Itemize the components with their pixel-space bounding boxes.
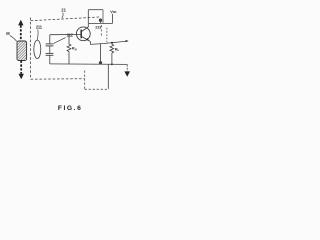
VDD lead [112, 14, 114, 24]
svg-text:M: M [6, 31, 10, 36]
junction dot RL bottom [111, 63, 113, 65]
pickup ellipse 211 [34, 40, 41, 58]
vibration arrow lower dashed shaft [20, 61, 22, 74]
collector wire down at right [102, 10, 104, 24]
resistor RL zigzag [110, 44, 114, 53]
terminal circle emitter [99, 62, 102, 65]
dashed box jog horizontal [85, 88, 109, 90]
resistor RL lead bottom [111, 53, 113, 64]
svg-text:211: 211 [36, 25, 43, 30]
terminal circle collector [99, 19, 102, 22]
vibration arrow up head [18, 20, 23, 26]
emitter wire down from transistor [89, 41, 90, 45]
vibration arrow upper dashed shaft [20, 25, 22, 41]
dashed boundary segment right [106, 28, 108, 43]
resistor RL lead top [111, 43, 113, 45]
collector wire top horizontal [88, 9, 103, 11]
leader from 21 to box [62, 13, 63, 19]
ground rail [50, 63, 128, 66]
ground arrow head [124, 71, 130, 76]
output boundary solid vertical [107, 64, 109, 88]
resistor Rg lead bottom [68, 52, 70, 65]
svg-text:VDD: VDD [110, 9, 116, 14]
svg-text:213: 213 [95, 24, 102, 29]
resistor Rg zigzag [67, 44, 71, 51]
junction dot RL top [111, 42, 113, 44]
ground arrow lead [126, 65, 128, 72]
leader from M to magnet [10, 35, 17, 41]
capacitor C2 plates [46, 52, 54, 54]
dashed box jog vertical [84, 71, 86, 90]
dashed box 21 left edge [30, 18, 32, 80]
svg-text:RL: RL [115, 46, 120, 52]
svg-text:21: 21 [61, 8, 66, 13]
wire between capacitors [49, 46, 51, 53]
emitter ground tap wire [100, 44, 102, 62]
transistor collector stroke [81, 27, 88, 32]
leader from 211 to pickup ellipse [36, 30, 39, 40]
output arrowhead [126, 40, 129, 42]
svg-text:FIG.6: FIG.6 [58, 105, 82, 112]
wire capacitor bottom lead to rail [49, 55, 51, 64]
supply horizontal wire [89, 22, 113, 24]
dashed box 21 bottom edge [31, 78, 85, 81]
transistor 213 circle [76, 27, 90, 41]
transistor emitter stroke with arrow [81, 36, 89, 41]
wire capacitor top lead [49, 35, 51, 44]
vibration arrow down head [19, 74, 24, 80]
dashed box 21 top edge [31, 17, 100, 21]
leader from 212 to capacitors [54, 38, 66, 44]
resistor Rg lead top [68, 35, 70, 45]
emitter output line [90, 41, 127, 44]
capacitor C1 plates [46, 43, 54, 45]
dashed box 21 right edge upper dashes [100, 25, 102, 36]
svg-text:Rg: Rg [72, 46, 77, 52]
base wire [50, 34, 81, 36]
terminal stub [100, 22, 102, 24]
magnet (hatched rectangle) [17, 41, 27, 61]
transistor base bar [80, 30, 82, 39]
collector wire up [87, 10, 89, 27]
